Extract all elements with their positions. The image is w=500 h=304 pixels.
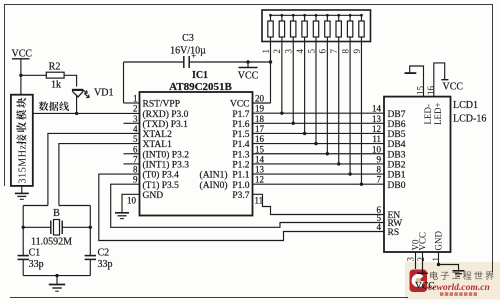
svg-text:(RXD) P3.0: (RXD) P3.0 [143, 109, 189, 120]
svg-text:16: 16 [255, 134, 265, 144]
svg-text:3: 3 [133, 114, 138, 124]
svg-text:P1.5: P1.5 [232, 130, 249, 140]
svg-text:(AIN1): (AIN1) [200, 170, 228, 181]
svg-text:33p: 33p [29, 259, 44, 270]
svg-text:DB6: DB6 [388, 120, 406, 130]
svg-text:2: 2 [416, 257, 426, 262]
svg-text:(T0) P3.4: (T0) P3.4 [143, 170, 180, 181]
svg-text:B: B [53, 208, 60, 219]
svg-text:VCC: VCC [12, 49, 33, 60]
svg-text:7: 7 [133, 154, 138, 164]
svg-text:P1.2: P1.2 [232, 161, 249, 171]
svg-text:17: 17 [255, 124, 265, 134]
svg-text:5: 5 [306, 49, 316, 54]
svg-text:GND: GND [434, 231, 444, 251]
svg-text:LCD-16: LCD-16 [453, 114, 486, 125]
svg-text:(INT0) P3.2: (INT0) P3.2 [143, 149, 190, 160]
svg-text:eeworld.com.cn: eeworld.com.cn [428, 282, 490, 293]
svg-text:R2: R2 [49, 62, 61, 73]
svg-text:DB1: DB1 [388, 171, 406, 181]
svg-text:DB5: DB5 [388, 130, 406, 140]
svg-text:DB3: DB3 [388, 150, 406, 160]
svg-text:11.0592M: 11.0592M [31, 237, 72, 248]
svg-text:15: 15 [416, 86, 426, 96]
svg-text:13: 13 [255, 165, 265, 175]
svg-text:18: 18 [255, 114, 265, 124]
svg-text:11: 11 [372, 134, 381, 144]
svg-text:4: 4 [133, 124, 138, 134]
svg-text:(TXD) P3.1: (TXD) P3.1 [143, 119, 189, 130]
svg-text:20: 20 [255, 94, 265, 104]
svg-text:DB2: DB2 [388, 161, 406, 171]
svg-text:XTAL1: XTAL1 [143, 140, 173, 150]
svg-text:315MHz: 315MHz [17, 144, 28, 183]
svg-text:9: 9 [352, 49, 362, 54]
svg-text:DB4: DB4 [388, 140, 406, 150]
svg-text:P1.1: P1.1 [232, 171, 249, 181]
svg-text:3: 3 [284, 49, 294, 54]
svg-text:12: 12 [255, 175, 264, 185]
svg-text:5: 5 [133, 134, 138, 144]
svg-text:DB0: DB0 [388, 181, 406, 191]
svg-text:12: 12 [372, 124, 381, 134]
svg-text:7: 7 [377, 175, 382, 185]
svg-text:9: 9 [377, 154, 382, 164]
svg-text:VD1: VD1 [94, 87, 113, 98]
svg-text:33p: 33p [98, 259, 113, 270]
svg-text:6: 6 [133, 144, 138, 154]
svg-text:19: 19 [255, 104, 265, 114]
svg-text:VCC: VCC [238, 71, 259, 82]
svg-text:P1.6: P1.6 [232, 120, 249, 130]
svg-text:16: 16 [426, 86, 436, 96]
svg-text:1: 1 [261, 49, 271, 54]
svg-text:LED+: LED+ [433, 102, 443, 125]
svg-text:VCC: VCC [418, 232, 428, 251]
svg-text:RST/VPP: RST/VPP [143, 100, 181, 110]
svg-text:(INT1) P3.3: (INT1) P3.3 [143, 160, 190, 171]
svg-text:16V/10µ: 16V/10µ [170, 46, 206, 57]
svg-text:VCC: VCC [443, 82, 464, 93]
svg-text:14: 14 [255, 154, 265, 164]
svg-text:8: 8 [340, 49, 350, 54]
svg-text:1: 1 [431, 257, 441, 262]
svg-text:4: 4 [377, 222, 382, 232]
svg-text:9: 9 [133, 175, 138, 185]
svg-text:AT89C2051B: AT89C2051B [169, 81, 232, 93]
svg-text:8: 8 [133, 165, 138, 175]
svg-text:3: 3 [406, 257, 416, 262]
svg-text:P1.0: P1.0 [232, 181, 249, 191]
svg-text:LCD1: LCD1 [453, 100, 478, 111]
svg-text:2: 2 [133, 104, 138, 114]
svg-text:10: 10 [127, 196, 137, 206]
svg-text:8: 8 [377, 165, 382, 175]
svg-text:IC1: IC1 [192, 70, 208, 81]
svg-text:10: 10 [372, 144, 382, 154]
svg-text:RS: RS [388, 228, 400, 238]
svg-text:2: 2 [272, 49, 282, 54]
svg-text:(T1) P3.5: (T1) P3.5 [143, 180, 180, 191]
svg-text:P1.4: P1.4 [232, 140, 249, 150]
svg-text:13: 13 [372, 114, 382, 124]
svg-text:XTAL2: XTAL2 [143, 130, 173, 140]
svg-text:+: + [192, 52, 197, 61]
svg-text:P1.3: P1.3 [232, 150, 249, 160]
svg-text:C3: C3 [182, 33, 194, 44]
svg-text:1: 1 [133, 94, 138, 104]
svg-text:6: 6 [318, 49, 328, 54]
svg-text:P3.7: P3.7 [232, 191, 249, 201]
svg-text:LED-: LED- [423, 104, 433, 125]
svg-text:1k: 1k [51, 80, 61, 91]
svg-text:VCC: VCC [230, 100, 250, 110]
svg-text:C2: C2 [98, 248, 110, 259]
svg-text:7: 7 [329, 49, 339, 54]
svg-text:C1: C1 [29, 248, 41, 259]
svg-text:14: 14 [372, 104, 382, 114]
svg-text:P1.7: P1.7 [232, 110, 249, 120]
svg-text:11: 11 [255, 196, 264, 206]
svg-text:(AIN0): (AIN0) [200, 180, 228, 191]
svg-text:4: 4 [295, 49, 305, 54]
svg-text:GND: GND [143, 191, 164, 201]
svg-text:15: 15 [255, 144, 265, 154]
svg-text:DB7: DB7 [388, 110, 406, 120]
